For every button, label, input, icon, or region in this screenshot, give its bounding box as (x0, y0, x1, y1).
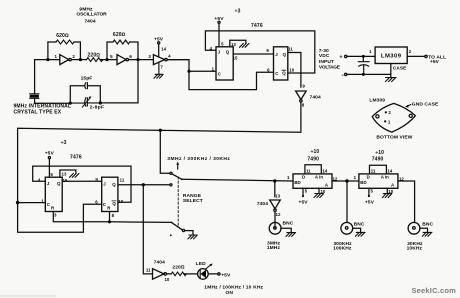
wire FF2 Q11 down to inverter U1D (288, 53, 301, 88)
ground for switch S1b (189, 234, 197, 236)
svg-text:12: 12 (276, 212, 281, 217)
wire FF1 pin3 reset stub (53, 212, 109, 222)
RANGE SELECT label (183, 193, 203, 204)
resistor R3 620ohm zigzag (113, 40, 130, 44)
BNC connector J1 (269, 222, 281, 234)
svg-text:INPUT: INPUT (319, 59, 334, 65)
node cap branch right junction (99, 101, 102, 104)
mounting hole left (376, 115, 379, 118)
svg-text:7-30: 7-30 (319, 48, 329, 54)
LED D1 circle (198, 269, 209, 280)
svg-text:ON: ON (225, 290, 233, 296)
svg-text:1: 1 (369, 49, 372, 54)
svg-text:÷10: ÷10 (375, 150, 384, 156)
+5V supply terminal for U1C (158, 42, 160, 44)
svg-text:11: 11 (146, 268, 151, 273)
svg-text:620Ω: 620Ω (56, 33, 69, 39)
counter U6 7490 box (359, 174, 398, 188)
svg-text:10KHz: 10KHz (407, 245, 423, 251)
svg-text:5: 5 (221, 42, 224, 47)
svg-text:A in: A in (315, 175, 323, 180)
svg-text:2: 2 (72, 54, 75, 59)
output terminal to all +5V (425, 55, 427, 57)
svg-text:7404: 7404 (154, 259, 165, 265)
svg-text:2: 2 (409, 49, 412, 54)
svg-text:LM309: LM309 (381, 54, 402, 60)
BNC connector J3 (408, 222, 420, 234)
svg-text:620Ω: 620Ω (113, 32, 126, 38)
BNC2 ground tail (353, 228, 361, 232)
wire left bus to FF1 C pin1 (18, 202, 46, 204)
svg-text:7490: 7490 (307, 157, 319, 163)
svg-text:BD: BD (360, 180, 366, 185)
wire tap down to inverter U1F (274, 181, 276, 197)
U6 pin11 to pin14 bridge (370, 165, 387, 174)
capacitor C1 15pF (85, 83, 88, 89)
node pin6 junction (136, 58, 139, 61)
switch S1b arm (171, 222, 173, 224)
svg-text:5: 5 (50, 172, 53, 177)
wire Q11 node down to LED driver input (143, 185, 152, 274)
svg-text:100KHz: 100KHz (333, 246, 352, 252)
svg-text:7404: 7404 (257, 201, 268, 207)
case lead and label (390, 64, 392, 78)
svg-text:Q: Q (112, 182, 116, 187)
svg-text:Q: Q (57, 181, 61, 186)
inverter U1E 7404 LED driver (153, 269, 165, 280)
svg-text:15: 15 (233, 55, 238, 60)
node A inverter1 input junction (46, 58, 49, 61)
svg-text:CASE: CASE (393, 66, 406, 71)
svg-text:7476: 7476 (70, 154, 82, 160)
wire feedback bottom line (35, 60, 138, 104)
switch gang dashed link (177, 177, 179, 227)
wire FF1 Q15 to FF2 J9 (233, 53, 273, 55)
svg-text:OSCILLATOR: OSCILLATOR (76, 11, 107, 17)
svg-text:11: 11 (371, 169, 376, 174)
svg-text:13: 13 (231, 42, 236, 47)
counter U5 7490 box (293, 174, 332, 188)
svg-text:1: 1 (54, 54, 57, 59)
svg-text:4: 4 (168, 53, 171, 58)
svg-text:C: C (218, 72, 222, 77)
svg-text:1: 1 (287, 175, 290, 180)
resistor R4 220ohm zigzag (171, 272, 186, 276)
svg-text:÷10: ÷10 (311, 149, 320, 155)
svg-text:13: 13 (62, 172, 67, 177)
svg-text:9: 9 (266, 48, 269, 53)
capacitor C3 input filter (358, 56, 369, 74)
flip-flop U2B 7476 box (274, 47, 288, 80)
package pin 1 dot and label (384, 120, 386, 122)
flip-flop U4B 7476 box (102, 177, 118, 211)
pin 13 ground hook top 7476 (230, 40, 246, 47)
wire feedback Q10 to J4 bottom 7476 (33, 166, 131, 202)
svg-text:15pF: 15pF (81, 76, 93, 82)
ground for U1C pin7 (155, 62, 163, 74)
svg-text:+5V: +5V (154, 37, 164, 43)
node left bus clock junction (16, 201, 19, 204)
svg-text:15: 15 (63, 178, 68, 183)
svg-text:A in: A in (381, 175, 389, 180)
crystal Y1 9MHz (30, 60, 39, 104)
U5 +5V terminal pin5 (302, 188, 304, 195)
svg-text:RANGE: RANGE (183, 193, 202, 199)
wire 3MHz tap down to switch pole (160, 130, 170, 173)
wire U6 output down to BNC3 (398, 181, 415, 223)
LM309 TO-3 package bottom view outline (372, 103, 415, 132)
wire feedback Q10 to J4 top 7476 (205, 31, 314, 73)
trimmer arrow (82, 98, 90, 107)
svg-text:BNC: BNC (422, 221, 433, 227)
svg-text:+: + (339, 54, 342, 60)
resistor R1 620ohm feedback loop wire (48, 42, 81, 60)
node filter cap top junction (362, 55, 365, 58)
wire U1D output long line down-left to bottom section (18, 102, 301, 202)
svg-text:+5V: +5V (430, 59, 440, 65)
svg-text:5: 5 (110, 54, 113, 59)
svg-text:1MHz: 1MHz (267, 245, 281, 251)
wire U1C output to FF clock node (167, 60, 189, 72)
oscillator title label (76, 7, 107, 25)
BNC2 frequency labels (333, 241, 352, 252)
inverter U1A 7404 (60, 55, 69, 65)
unused contact dot (170, 234, 172, 236)
wire U5 output to U6 input (332, 180, 359, 182)
svg-text:VOLTAGE: VOLTAGE (319, 64, 341, 70)
wire to BNC1 (274, 211, 276, 227)
svg-text:J: J (103, 182, 106, 187)
svg-text:5: 5 (305, 189, 308, 194)
wire reset line to range switch lower pole (110, 221, 172, 224)
switch S1a pole contact circle (170, 172, 172, 174)
capacitor C2 2-8pF trimmer (70, 98, 100, 107)
svg-text:A: A (391, 182, 395, 187)
svg-text:+5V: +5V (299, 199, 309, 205)
svg-text:BNC: BNC (283, 220, 294, 226)
voltage regulator U3 LM309 box (375, 47, 407, 64)
svg-text:7476: 7476 (251, 23, 263, 29)
selection arrow up (177, 164, 179, 170)
svg-text:3: 3 (148, 54, 151, 59)
svg-text:13: 13 (275, 193, 280, 198)
wire left bus down and around to FF2 C pin6 (18, 203, 102, 233)
switch S1b contact circle to ground (182, 229, 184, 231)
wire tap down to BNC2 (346, 181, 348, 223)
svg-text:-: - (342, 72, 344, 79)
U6 +5V terminal pin5 (368, 188, 370, 195)
switch contact circle 1MHz (170, 184, 172, 186)
svg-text:J: J (47, 181, 50, 186)
svg-text:1: 1 (354, 175, 357, 180)
package pin 2 dot and label (385, 111, 387, 113)
wire LED to +5V terminal (208, 273, 218, 275)
svg-text:2-8pF: 2-8pF (90, 105, 105, 111)
wire FF2 pin8 reset stub (109, 212, 111, 222)
wire 15pF parallel branch (70, 86, 100, 103)
LED triangle (201, 270, 207, 278)
svg-text:D: D (302, 175, 305, 180)
BNC1 frequency labels (267, 240, 281, 251)
svg-text:LM309: LM309 (369, 98, 385, 104)
svg-text:2: 2 (388, 110, 391, 115)
svg-text:GND CASE: GND CASE (412, 102, 439, 108)
svg-text:1MHz / 100KHz / 10 KHz: 1MHz / 100KHz / 10 KHz (204, 284, 263, 290)
svg-text:R: R (51, 206, 55, 211)
wire main oscillator line (35, 59, 189, 61)
Qbar overline mark U2B (282, 69, 286, 71)
svg-text:A: A (325, 182, 329, 187)
svg-text:4: 4 (38, 178, 41, 183)
node reset junction (108, 220, 111, 223)
U5 ground pin10 (318, 188, 320, 193)
svg-text:220Ω: 220Ω (88, 53, 101, 59)
crystal label (14, 104, 72, 116)
svg-text:14: 14 (387, 168, 392, 173)
svg-text:8: 8 (302, 102, 305, 107)
Qbar overline mark U4B (112, 200, 116, 202)
svg-text:J: J (218, 50, 221, 55)
svg-text:6: 6 (267, 67, 270, 72)
svg-text:10: 10 (289, 67, 294, 72)
svg-text:Q: Q (112, 201, 116, 206)
BNC3 frequency labels (407, 241, 423, 251)
svg-text:220Ω: 220Ω (172, 265, 184, 271)
inverter U1D 7404 pointing down (296, 91, 307, 100)
node inverter2 input junction (105, 58, 108, 61)
svg-text:BD: BD (294, 180, 300, 185)
svg-text:5: 5 (370, 189, 373, 194)
svg-text:Q: Q (226, 50, 230, 55)
svg-text:7: 7 (160, 65, 163, 70)
inverter U1F 7404 pointing down (270, 200, 281, 209)
faint bottom left scan artifact (0, 295, 56, 297)
U5 pin11 to pin14 bridge (305, 165, 321, 174)
pin 13 ground hook bottom 7476 (60, 170, 76, 177)
resistor R3 620ohm feedback loop wire (107, 42, 138, 60)
ground case (386, 77, 396, 79)
svg-text:11: 11 (120, 178, 125, 183)
svg-text:CRYSTAL TYPE EX: CRYSTAL TYPE EX (14, 109, 62, 115)
node pin2 junction (79, 58, 82, 61)
svg-text:11: 11 (306, 169, 311, 174)
svg-text:Q: Q (282, 71, 286, 76)
switch S1a arm (172, 174, 182, 179)
node cap branch left junction (69, 102, 72, 105)
flip-flop U2A 7476 box (216, 47, 233, 80)
svg-text:+5V: +5V (221, 272, 231, 278)
LED cathode bar (199, 270, 201, 277)
svg-text:÷3: ÷3 (61, 140, 67, 146)
node top clock junction (187, 70, 190, 73)
7-30 VDC input voltage label (319, 48, 341, 71)
svg-text:10: 10 (118, 199, 123, 204)
svg-text:8: 8 (112, 213, 115, 218)
svg-text:3: 3 (54, 213, 57, 218)
BNC3 ground tail (420, 228, 428, 232)
svg-text:7404: 7404 (84, 18, 95, 24)
svg-text:R: R (107, 206, 111, 211)
svg-text:9: 9 (302, 84, 305, 89)
flip-flop U4A 7476 box (45, 177, 62, 211)
wire FF1 Q15 to FF2 J9 bottom (62, 180, 101, 182)
svg-text:14: 14 (161, 46, 166, 51)
svg-text:+5V: +5V (45, 151, 55, 157)
svg-text:Q: Q (283, 52, 287, 57)
U6 ground pin10 (386, 188, 388, 193)
svg-text:D: D (367, 175, 370, 180)
LED mode label (204, 284, 263, 296)
resistor R1 620ohm zigzag (56, 40, 74, 44)
wire clock staircase to FF2 C pin6 (189, 71, 274, 89)
node BNC1 tap junction (273, 179, 276, 182)
svg-text:VDC: VDC (319, 53, 330, 59)
node LED driver tap junction (142, 183, 145, 186)
svg-text:6: 6 (129, 54, 132, 59)
svg-text:LED: LED (196, 261, 206, 267)
node cap bottom junction (362, 73, 365, 76)
svg-text:10: 10 (164, 277, 169, 282)
resistor R2 220ohm zigzag (87, 58, 103, 62)
svg-text:14: 14 (322, 168, 327, 173)
svg-text:BNC: BNC (354, 221, 365, 227)
svg-text:1: 1 (388, 119, 391, 124)
node BNC2 tap junction (345, 179, 348, 182)
svg-text:÷3: ÷3 (235, 8, 241, 14)
inverter U1B 7404 (117, 55, 126, 65)
mounting hole right (409, 114, 412, 117)
svg-text:7490: 7490 (372, 157, 384, 163)
svg-text:SeekIC.com: SeekIC.com (411, 286, 456, 295)
svg-text:3MHz / 300KHz / 30KHz: 3MHz / 300KHz / 30KHz (167, 156, 230, 162)
svg-text:SELECT: SELECT (183, 198, 203, 204)
svg-text:7404: 7404 (310, 95, 321, 101)
wire regulator output (407, 55, 425, 57)
svg-text:C: C (275, 71, 279, 76)
BNC connector J2 (341, 222, 353, 234)
wire inverter to resistor (167, 273, 198, 275)
inverter U1C 7404 buffer (153, 55, 164, 65)
svg-text:J: J (275, 52, 278, 57)
wire switch output to 7490 number1 (182, 179, 293, 181)
wire FF2 Q11 output to switch contact (118, 184, 170, 186)
wire clock to FF1 C pin1 (189, 70, 216, 72)
svg-text:11: 11 (288, 47, 293, 52)
svg-text:BOTTOM VIEW: BOTTOM VIEW (376, 134, 412, 140)
node 3MHz tap junction on long line (159, 129, 162, 132)
BNC1 ground tail (281, 228, 291, 232)
svg-text:+5V: +5V (365, 200, 375, 206)
